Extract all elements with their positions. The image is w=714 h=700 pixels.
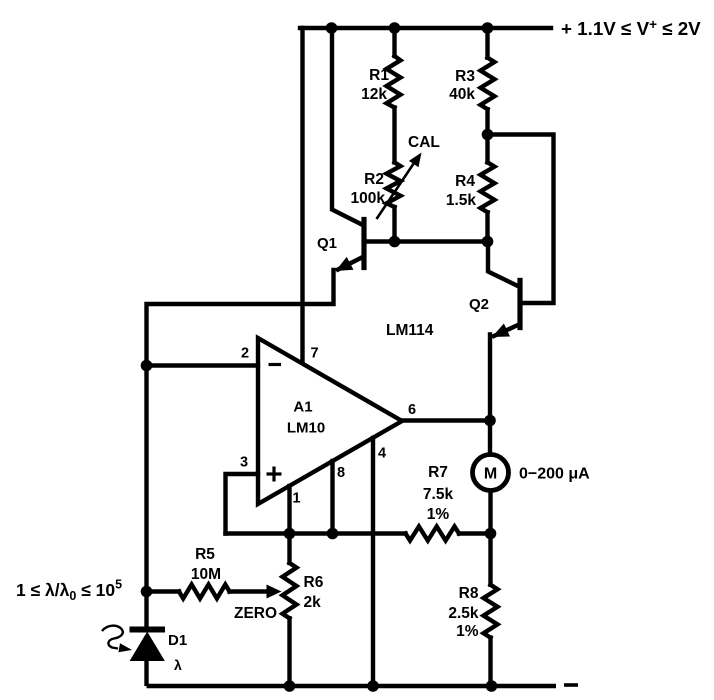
- op-amp pin 8 wire: [330, 461, 334, 534]
- wire: feedback line pins 1,8,3 to R7: [226, 531, 406, 535]
- node: R5 / D1 / input column junction: [141, 586, 153, 598]
- op-amp pin 6 output wire: [402, 418, 490, 422]
- svg-text:1%: 1%: [427, 506, 450, 523]
- svg-text:7.5k: 7.5k: [423, 486, 454, 503]
- transistor Q1 base bar: [361, 220, 366, 268]
- svg-text:1: 1: [293, 491, 301, 507]
- svg-text:1%: 1%: [456, 623, 479, 640]
- op-amp non-inverting input plus sign: [267, 472, 282, 475]
- resistor R7 7.5k: [406, 527, 460, 541]
- resistor R3 40k: [485, 28, 489, 58]
- svg-text:CAL: CAL: [408, 134, 440, 151]
- potentiometer R2 100k (CAL): [387, 162, 401, 207]
- resistor R8 2.5k: [488, 534, 492, 585]
- wire: Q1 emitter down/left to inverting input node: [147, 270, 334, 629]
- svg-text:R7: R7: [428, 464, 448, 481]
- resistor R4 1.5k: [485, 135, 489, 163]
- svg-text:+ 1.1V ≤ V+ ≤ 2V: + 1.1V ≤ V+ ≤ 2V: [561, 17, 701, 39]
- svg-text:6: 6: [408, 402, 416, 418]
- svg-text:0−200 μA: 0−200 μA: [519, 466, 590, 483]
- svg-text:M: M: [484, 466, 497, 483]
- node: R6 bottom junction: [284, 680, 296, 692]
- transistor Q2 emitter: [494, 325, 518, 336]
- svg-text:12k: 12k: [361, 86, 387, 103]
- resistor R1 12k: [392, 28, 396, 56]
- svg-text:λ: λ: [174, 657, 182, 673]
- svg-text:R5: R5: [195, 546, 215, 563]
- svg-text:R3: R3: [455, 68, 475, 85]
- node: rail junction Q1 collector: [326, 22, 338, 34]
- wire: base rail Q1 base to R2/R4 bottoms: [364, 239, 488, 243]
- svg-text:LM10: LM10: [287, 420, 325, 437]
- photodiode D1 triangle: [131, 633, 165, 661]
- svg-text:R4: R4: [455, 173, 475, 190]
- svg-text:2.5k: 2.5k: [448, 605, 479, 622]
- op-amp pin 2 input wire: [147, 363, 259, 367]
- wire: input node to R5: [147, 589, 180, 593]
- wire: bottom V- rail: [147, 684, 557, 688]
- node: R4 bottom / Q2 collector junction: [482, 236, 494, 248]
- svg-text:LM114: LM114: [386, 322, 434, 339]
- node: meter bottom / R7 / R8 junction: [485, 528, 497, 540]
- op-amp inverting input minus sign: [269, 363, 282, 366]
- svg-text:3: 3: [240, 455, 248, 471]
- svg-text:4: 4: [378, 446, 386, 462]
- op-amp pin 4 wire: [371, 438, 375, 686]
- wire: D1 anode to bottom rail: [144, 660, 148, 686]
- node: pin 8 junction: [327, 528, 339, 540]
- wire: V+ top supply rail: [300, 26, 551, 30]
- op-amp A1 LM10 triangle: [258, 338, 402, 504]
- svg-text:40k: 40k: [449, 86, 475, 103]
- node: R3/R4 junction: [482, 129, 494, 141]
- op-amp pin 1 wire: [287, 486, 291, 534]
- photodiode D1 cathode bar: [130, 627, 166, 633]
- svg-text:2: 2: [241, 346, 249, 362]
- svg-text:7: 7: [311, 346, 319, 362]
- svg-text:Q1: Q1: [317, 235, 337, 252]
- svg-text:2k: 2k: [304, 594, 322, 611]
- transistor Q2 collector: [488, 242, 518, 287]
- node: output junction above meter: [484, 415, 496, 427]
- node: pin 2 / D1 / R5 input node dot: [141, 360, 153, 372]
- node: R2 bottom junction: [389, 236, 401, 248]
- svg-text:R8: R8: [459, 585, 479, 602]
- node: rail junction R3 top: [482, 22, 494, 34]
- potentiometer R6 2k (ZERO): [287, 534, 291, 564]
- op-amp pin 3 input wire: [226, 474, 259, 534]
- node: pin 4 bottom junction: [367, 680, 379, 692]
- resistor R5 10M: [179, 585, 230, 599]
- svg-text:100k: 100k: [351, 190, 386, 207]
- svg-text:D1: D1: [168, 632, 187, 649]
- transistor Q2 base bar: [517, 281, 522, 328]
- svg-text:1.5k: 1.5k: [446, 192, 477, 209]
- wire: Q2 emitter to output node: [488, 335, 492, 421]
- svg-text:Q2: Q2: [469, 296, 489, 313]
- node: R8 bottom junction: [486, 680, 498, 692]
- meter M 0-200uA: [488, 421, 492, 456]
- svg-text:A1: A1: [293, 399, 312, 416]
- svg-text:R6: R6: [304, 574, 324, 591]
- R5 wiper arrow into R6: [267, 585, 282, 599]
- potentiometer R2 wiper arrow: [377, 160, 417, 219]
- transistor Q1 collector: [332, 28, 362, 225]
- transistor Q1 emitter: [338, 258, 362, 270]
- photodiode light squiggle arrow: [102, 626, 123, 649]
- svg-text:ZERO: ZERO: [234, 605, 277, 622]
- svg-text:8: 8: [337, 465, 345, 481]
- node: rail junction R1 top: [389, 22, 401, 34]
- svg-text:10M: 10M: [191, 566, 221, 583]
- wire: R3/R4 junction to Q2 base: [488, 135, 554, 304]
- svg-text:R1: R1: [369, 67, 389, 84]
- node: pin 1 / R6 top junction: [284, 528, 296, 540]
- wire: left vertical from V+ rail down to op-amp pin 7: [300, 28, 304, 362]
- svg-text:1 ≤ λ/λ0 ≤ 105: 1 ≤ λ/λ0 ≤ 105: [16, 578, 122, 604]
- minus terminal mark: [564, 683, 578, 687]
- svg-text:R2: R2: [364, 171, 384, 188]
